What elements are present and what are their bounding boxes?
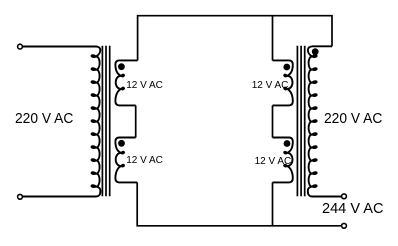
label 12 V AC T2 sec2 (255, 157, 292, 167)
phase dot T1 sec1 (118, 63, 125, 70)
transformer T2 secondary 1 winding (273, 60, 293, 105)
wire T2 sec2 bottom drop (272, 182, 274, 225)
label 12 V AC T2 sec1 (252, 81, 289, 91)
transformer T2 core (296, 46, 298, 197)
transformer T1 primary winding with source leads (23, 47, 100, 197)
terminal top-left (18, 44, 23, 49)
wire T1 sec1 top to top rail across to T2 220V winding (138, 16, 332, 61)
transformer T2 220V winding with output lead (308, 46, 341, 196)
phase dot T2 220V winding (312, 48, 319, 55)
label 12 V AC T1 sec1 (126, 81, 163, 91)
phase dot T2 sec1 (283, 64, 290, 71)
label 12 V AC T1 sec2 (126, 156, 163, 166)
label 220 V AC right (324, 111, 382, 126)
terminal bottom-left (18, 194, 23, 199)
label 244 V AC (322, 201, 383, 216)
transformer T1 core (101, 46, 103, 197)
wire jog T1 sec1-sec2 series link (135, 105, 137, 137)
transformer T1 secondary 1 winding (115, 60, 137, 105)
transformer T2 secondary 2 winding (273, 138, 293, 183)
terminal 244V top (342, 194, 347, 199)
wire top rail drop to T2 sec1 (272, 16, 274, 61)
transformer T1 secondary 2 winding (115, 138, 137, 183)
wire jog T2 sec1-sec2 series link (272, 105, 274, 137)
label 220 V AC left (15, 111, 73, 126)
phase dot T1 sec2 (118, 140, 125, 147)
terminal 244V bottom (342, 223, 347, 228)
phase dot T2 sec2 (284, 140, 291, 147)
wire T1 sec2 bottom drop to bottom rail (137, 182, 341, 225)
